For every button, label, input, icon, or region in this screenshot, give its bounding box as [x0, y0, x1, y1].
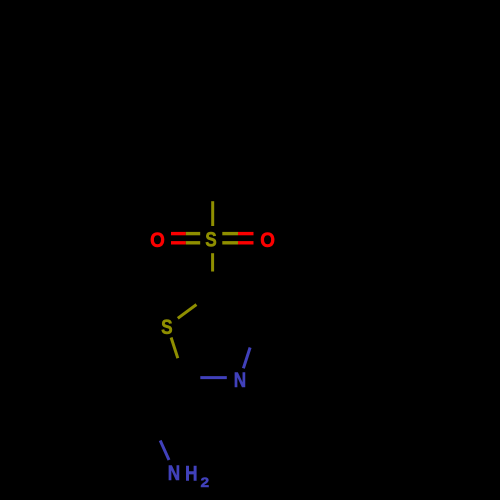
svg-text:2: 2: [200, 476, 209, 491]
bond CH2 to amine N (carbon half): [151, 421, 160, 441]
svg-text:H: H: [185, 462, 197, 486]
bond phenyl C1 to sulfonyl S (sulfur half): [211, 201, 214, 226]
bond C2 to S1 (sulfur half): [171, 338, 178, 359]
S=O double bond right, S half: [222, 234, 238, 243]
S=O double bond left, S half: [186, 234, 200, 243]
svg-text:O: O: [150, 229, 165, 252]
bond C2 to N3 (nitrogen half): [200, 376, 227, 379]
bond phenyl C1 to sulfonyl S (carbon half): [211, 176, 214, 201]
bond C2 to S1 (carbon half): [178, 358, 185, 379]
amine NH2 label: [168, 461, 209, 490]
bond CH2 to amine N (nitrogen half): [160, 441, 169, 461]
thiazole C5=C4 double bond (carbon): [212, 294, 257, 327]
svg-text:N: N: [234, 368, 246, 392]
svg-text:S: S: [205, 228, 216, 252]
bond C4 to N3 (carbon half): [250, 326, 257, 347]
S=O double bond left, O half: [171, 234, 186, 243]
bond C4 to N3 (nitrogen half): [243, 348, 250, 369]
bond sulfonyl S to thiazole C5 (sulfur half): [211, 253, 214, 271]
benzene ring (carbon, near-black): [165, 66, 261, 177]
bond S1 to C5 (sulfur half): [178, 305, 197, 319]
S=O double bond right, O half: [238, 234, 254, 243]
bond C2 to CH2 (carbon): [151, 379, 184, 421]
svg-text:N: N: [168, 461, 180, 485]
bond C2 to N3 (carbon half): [185, 376, 201, 379]
svg-text:O: O: [260, 229, 275, 252]
bond S1 to C5 (carbon half): [197, 294, 213, 305]
svg-text:S: S: [161, 315, 172, 339]
bond sulfonyl S to thiazole C5 (carbon half): [211, 272, 214, 294]
